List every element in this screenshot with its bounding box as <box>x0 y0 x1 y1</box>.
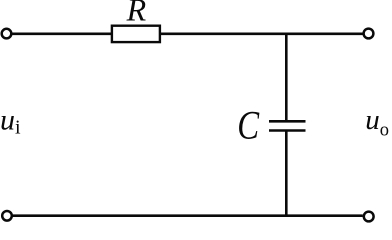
svg-text:ui: ui <box>0 104 21 139</box>
capacitor C1 bottom plate <box>269 129 306 132</box>
svg-text:R: R <box>126 0 147 28</box>
svg-text:C: C <box>237 102 259 147</box>
terminal bottom-left <box>2 211 12 221</box>
wire bottom <box>12 214 363 217</box>
terminal bottom-right <box>364 212 374 222</box>
wire top-left segment <box>12 32 112 35</box>
capacitor C1 top plate <box>269 120 306 123</box>
wire vertical upper (node to capacitor) <box>285 34 288 121</box>
resistor R1 <box>112 26 160 42</box>
wire top-right segment <box>161 32 363 35</box>
svg-text:uo: uo <box>365 104 389 140</box>
terminal top-left <box>2 29 12 39</box>
wire vertical lower <box>285 131 288 216</box>
terminal top-right <box>364 29 374 39</box>
